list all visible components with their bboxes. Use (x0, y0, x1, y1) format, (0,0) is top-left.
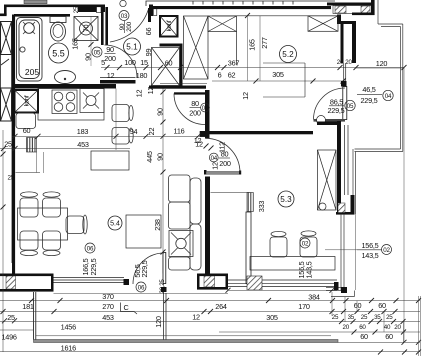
svg-text:22: 22 (147, 128, 156, 136)
svg-text:12: 12 (194, 136, 202, 145)
sink/shower square with symbol (80, 89, 104, 113)
dining chairs bottom (20, 231, 38, 250)
kitchen counter (38, 89, 104, 121)
C section mark (121, 303, 138, 315)
5.3 west wall lower thin + radiator (211, 192, 251, 194)
svg-text:200: 200 (104, 54, 116, 63)
svg-text:60: 60 (385, 332, 393, 341)
svg-text:143,5: 143,5 (305, 261, 314, 278)
svg-text:60: 60 (359, 324, 366, 331)
closet with X under konf (152, 48, 180, 86)
svg-text:konf: konf (166, 20, 173, 31)
svg-text:1456: 1456 (61, 323, 76, 332)
wardrobe A (184, 16, 209, 79)
hall closet L-wall (160, 44, 183, 47)
left dim column (2, 130, 4, 352)
terrace inner line (54, 293, 229, 295)
svg-text:90: 90 (156, 108, 165, 116)
label (06) 166,5/229,5 (85, 243, 95, 253)
5.2 closet line (212, 15, 340, 17)
svg-text:20: 20 (343, 324, 350, 331)
bar chair 1 (112, 105, 129, 122)
svg-text:183: 183 (77, 127, 89, 136)
east window glazing (344, 125, 346, 195)
svg-text:80: 80 (191, 99, 199, 108)
bathtub (17, 18, 43, 82)
svg-text:60: 60 (378, 301, 386, 310)
svg-text:06: 06 (87, 246, 94, 253)
left neighbour shaft 1 (1, 22, 12, 55)
radiator west (27, 138, 37, 153)
svg-text:143,5: 143,5 (361, 251, 378, 260)
svg-text:229,5: 229,5 (140, 260, 149, 277)
svg-text:5: 5 (101, 58, 105, 67)
right balcony outline (353, 0, 403, 214)
svg-text:200: 200 (189, 109, 201, 118)
5.2 east window jambs + sill (343, 63, 345, 81)
balcony outer corner lines (354, 291, 356, 297)
dim line H2 y=148.5 (0, 148, 130, 150)
hatched pillar on slider (247, 276, 262, 290)
svg-text:99: 99 (144, 49, 153, 57)
svg-text:370: 370 (102, 292, 114, 301)
svg-text:238: 238 (153, 219, 162, 231)
svg-text:25: 25 (386, 314, 393, 321)
vertical dim line x=163 (162, 89, 164, 274)
5.3 chair 2 (300, 237, 317, 257)
svg-text:180: 180 (136, 71, 148, 80)
small circle label top (120, 0, 126, 6)
right labels 156,5 (02) 143,5 (325, 249, 357, 251)
svg-text:165: 165 (248, 39, 257, 51)
balcony rail below block (340, 214, 342, 291)
dining chairs top (20, 198, 38, 217)
svg-text:04: 04 (202, 105, 209, 112)
door D4 living->5.3: leaf bar + arc (204, 170, 207, 175)
balcony door D5 of 5.2: leaf + arc (343, 87, 347, 120)
svg-text:5.4: 5.4 (110, 221, 120, 228)
svg-text:35: 35 (348, 314, 355, 321)
svg-text:02: 02 (302, 241, 309, 248)
5.2 closet NE with X (308, 16, 338, 31)
sofa (169, 175, 202, 270)
svg-text:12: 12 (192, 313, 200, 322)
svg-text:02: 02 (383, 247, 390, 254)
top thin slab line with ruler ticks (146, 1, 335, 6)
threshold wall stub (317, 122, 341, 126)
top wall right of entry door (149, 5, 153, 17)
top wall left section (4, 5, 79, 8)
dim 384 (228, 289, 337, 291)
svg-text:229,5: 229,5 (327, 106, 344, 115)
svg-text:25: 25 (4, 140, 12, 149)
left exterior wall corner (4, 5, 7, 16)
room label 5.1 (124, 38, 141, 55)
svg-text:384: 384 (308, 293, 320, 302)
svg-text:60: 60 (165, 59, 173, 68)
svg-text:200: 200 (126, 21, 133, 31)
svg-text:277: 277 (260, 37, 269, 49)
svg-text:03: 03 (121, 13, 128, 20)
armchair right of table (66, 216, 84, 234)
svg-text:120: 120 (154, 316, 163, 328)
wall bathroom/hall double bar (101, 7, 104, 45)
svg-text:15: 15 (140, 58, 148, 67)
terrace railing (34, 340, 339, 343)
south glazing (54, 277, 125, 279)
bottom dim line 4 (0, 329, 34, 331)
living south wall block 2 (197, 274, 228, 277)
svg-text:konf: konf (24, 95, 31, 106)
room label 5.5 (49, 43, 69, 63)
5.3 south slider (228, 279, 337, 281)
wardrobe B (208, 16, 237, 65)
bottom dim line 1 (0, 300, 420, 302)
svg-text:20,25: 20,25 (159, 279, 166, 294)
terrace door leaf + arc (163, 253, 166, 284)
svg-text:12: 12 (135, 90, 144, 98)
divider wall 5.4/5.3 lower (205, 177, 210, 275)
svg-text:06: 06 (138, 285, 145, 292)
bath door D5 arc (105, 45, 138, 78)
svg-text:270: 270 (102, 302, 114, 311)
svg-text:205: 205 (25, 67, 39, 77)
svg-text:C: C (123, 303, 128, 312)
svg-text:60: 60 (23, 126, 31, 135)
svg-text:12: 12 (211, 162, 220, 170)
svg-text:165: 165 (71, 38, 80, 50)
svg-text:05: 05 (94, 50, 101, 57)
svg-text:200: 200 (219, 159, 231, 168)
5.2 vertical dim lines (247, 16, 249, 82)
shaft box 70 (74, 17, 98, 41)
svg-text:120: 120 (376, 59, 388, 68)
bottom dim line 2 (0, 311, 420, 313)
svg-text:170: 170 (298, 302, 310, 311)
svg-text:12: 12 (241, 92, 250, 100)
coffee table with X (169, 231, 193, 257)
5.2 south wall (204, 131, 313, 134)
svg-text:305: 305 (266, 313, 278, 322)
kitchen konf shaft (15, 90, 39, 113)
5.2 bed corner lines (304, 63, 306, 97)
svg-text:66: 66 (144, 28, 153, 36)
svg-text:60: 60 (360, 332, 368, 341)
label (06) 56,5/229,5 20,25 (136, 282, 146, 292)
svg-text:60: 60 (354, 301, 362, 310)
5.3 desk (250, 257, 335, 271)
divider wall 5.4/5.3 upper (205, 90, 210, 139)
left neighbour shaft 3 (1, 88, 12, 121)
left neighbour box 2 (1, 55, 12, 89)
svg-text:6: 6 (218, 71, 222, 80)
door leaf extension lines (163, 293, 165, 340)
fridge appliance (16, 113, 36, 129)
svg-text:453: 453 (77, 140, 89, 149)
room 5.3 (278, 191, 294, 207)
svg-text:229,5: 229,5 (89, 258, 98, 275)
bar chair 2 (112, 128, 129, 145)
svg-text:1496: 1496 (2, 333, 17, 342)
tv table (126, 215, 161, 248)
svg-text:116: 116 (174, 127, 185, 136)
top-right exterior wall with insulation (327, 3, 375, 6)
bottom dim line 5 (36, 335, 331, 337)
svg-text:100: 100 (124, 58, 136, 67)
svg-text:25: 25 (8, 175, 15, 182)
svg-text:25: 25 (361, 314, 368, 321)
bottom-right extension verticals (332, 292, 421, 356)
hall door D4 (upper): leaf + arc + label (174, 92, 206, 94)
svg-text:46,5: 46,5 (362, 85, 375, 94)
svg-text:25: 25 (73, 6, 80, 13)
room 5.2 (280, 46, 297, 63)
svg-text:04: 04 (385, 93, 392, 100)
svg-text:35: 35 (374, 314, 381, 321)
bathroom south wall (15, 84, 116, 89)
svg-text:1616: 1616 (61, 344, 76, 353)
svg-text:40: 40 (384, 324, 391, 331)
5.3 NE wardrobe (318, 150, 337, 210)
extension lines bottom-left (33, 292, 35, 340)
label (04) 80/200 (209, 153, 218, 162)
svg-text:5.2: 5.2 (282, 50, 294, 59)
living south wall block 1 (0, 274, 54, 277)
svg-text:5.3: 5.3 (280, 195, 292, 204)
svg-text:181: 181 (22, 302, 34, 311)
entry door D3 arc (110, 9, 149, 42)
svg-text:453: 453 (102, 313, 114, 322)
svg-text:367: 367 (228, 59, 240, 68)
washbasin (55, 71, 76, 84)
svg-text:25: 25 (332, 314, 339, 321)
bottom dim line 3 (0, 321, 420, 323)
svg-text:90: 90 (119, 23, 126, 30)
west wall of apartment (12, 15, 15, 275)
hall south wall (149, 86, 206, 89)
door label 03 (119, 11, 129, 21)
dining table (18, 208, 68, 240)
bar table (91, 151, 129, 170)
svg-text:04: 04 (211, 155, 218, 162)
svg-text:156,5: 156,5 (361, 241, 378, 250)
hall wall right vertical (148, 8, 151, 22)
svg-text:445: 445 (145, 151, 154, 163)
svg-text:5.5: 5.5 (52, 49, 65, 59)
svg-text:264: 264 (215, 302, 227, 311)
svg-text:90: 90 (156, 153, 165, 161)
svg-text:90: 90 (106, 45, 114, 54)
bottom dim line 6 (0, 351, 420, 353)
top wall entry block (78, 5, 105, 13)
svg-text:94: 94 (130, 127, 138, 136)
top gray slab (24, 0, 47, 4)
door label 05 (92, 47, 102, 57)
room label 5.4 (108, 216, 122, 230)
svg-text:333: 333 (257, 201, 266, 213)
label (02) in room (300, 238, 310, 248)
SE corner block (337, 195, 341, 214)
svg-text:20: 20 (345, 59, 352, 66)
svg-text:20: 20 (394, 324, 401, 331)
svg-text:25: 25 (7, 313, 15, 322)
svg-text:305: 305 (272, 70, 284, 79)
svg-text:05: 05 (347, 103, 354, 110)
svg-text:20: 20 (337, 59, 344, 66)
svg-text:12: 12 (107, 71, 115, 80)
dimension line A y=67.5 (101, 67, 404, 69)
svg-text:229,5: 229,5 (360, 96, 377, 105)
toilet (50, 17, 66, 23)
svg-text:70: 70 (82, 25, 91, 33)
svg-text:80: 80 (221, 150, 229, 159)
konf shaft hall (160, 16, 178, 37)
dim line H1 y=136.3 (12, 135, 205, 137)
bathroom top wall (14, 14, 70, 17)
dimension line B y=81 (212, 80, 345, 82)
stove (52, 90, 77, 114)
5.3 east wall (337, 121, 341, 195)
svg-text:62: 62 (228, 71, 236, 80)
svg-text:5.1: 5.1 (126, 43, 138, 52)
5.3 chair 1 (270, 237, 287, 257)
